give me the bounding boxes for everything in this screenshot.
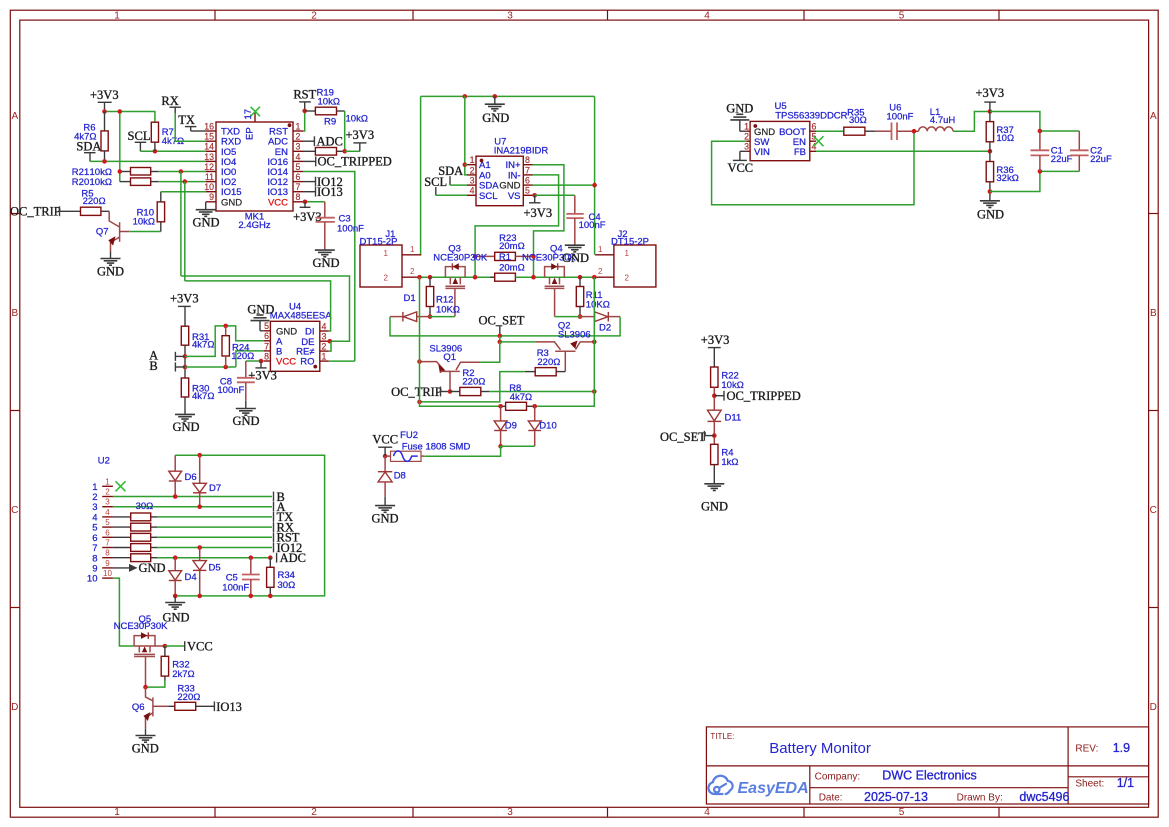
svg-text:R20: R20 (72, 177, 89, 188)
svg-text:7: 7 (525, 165, 530, 175)
svg-text:FU2: FU2 (400, 430, 418, 441)
svg-text:1: 1 (114, 11, 120, 22)
svg-text:GND: GND (132, 741, 159, 755)
svg-text:D: D (11, 702, 18, 713)
svg-text:SCL: SCL (424, 175, 447, 189)
svg-text:RO: RO (300, 357, 314, 368)
svg-text:VCC: VCC (727, 161, 753, 175)
svg-text:INA219BIDR: INA219BIDR (494, 146, 549, 157)
svg-text:EP: EP (245, 127, 256, 140)
svg-text:D7: D7 (209, 483, 221, 494)
svg-text:GND: GND (977, 208, 1004, 222)
svg-text:ADC: ADC (280, 551, 306, 565)
svg-text:OC_TRIPPED: OC_TRIPPED (318, 155, 392, 169)
svg-text:7: 7 (296, 182, 301, 192)
svg-text:Q6: Q6 (132, 702, 145, 713)
svg-text:1/1: 1/1 (1117, 776, 1134, 790)
svg-text:4: 4 (704, 807, 710, 818)
svg-text:Battery Monitor: Battery Monitor (769, 740, 871, 757)
svg-text:R1: R1 (499, 252, 511, 263)
svg-text:10Ω: 10Ω (996, 133, 1014, 144)
svg-text:Company:: Company: (815, 771, 861, 782)
svg-text:6: 6 (105, 528, 110, 537)
svg-text:10KΩ: 10KΩ (586, 300, 610, 311)
svg-text:2: 2 (625, 273, 630, 282)
svg-text:D5: D5 (209, 563, 221, 574)
svg-text:D1: D1 (404, 293, 416, 304)
svg-text:4: 4 (704, 11, 710, 22)
svg-text:R9: R9 (324, 116, 336, 127)
svg-text:3: 3 (507, 11, 513, 22)
svg-text:+3V3: +3V3 (170, 291, 199, 305)
svg-text:GND: GND (172, 420, 199, 434)
svg-text:D8: D8 (394, 471, 406, 482)
svg-text:2.4GHz: 2.4GHz (238, 220, 270, 231)
svg-text:100nF: 100nF (337, 224, 364, 235)
svg-text:OC_SET: OC_SET (479, 313, 525, 327)
svg-text:4k7Ω: 4k7Ω (510, 392, 532, 403)
svg-text:13: 13 (204, 152, 214, 162)
svg-text:3: 3 (744, 142, 749, 152)
svg-text:100nF: 100nF (887, 111, 914, 122)
svg-text:2k7Ω: 2k7Ω (172, 669, 194, 680)
svg-text:1.9: 1.9 (1113, 741, 1130, 755)
svg-text:SL3906: SL3906 (558, 330, 591, 341)
svg-text:GND: GND (726, 102, 753, 116)
svg-text:TX: TX (178, 113, 195, 127)
svg-text:100nF: 100nF (579, 220, 606, 231)
svg-text:OC_TRIP: OC_TRIP (391, 385, 442, 399)
svg-text:22uF: 22uF (1090, 154, 1112, 165)
svg-text:3: 3 (322, 332, 327, 342)
svg-text:32kΩ: 32kΩ (996, 173, 1018, 184)
svg-text:GND: GND (482, 111, 509, 125)
svg-text:D6: D6 (185, 472, 197, 483)
svg-text:C: C (1150, 505, 1157, 516)
svg-text:5: 5 (105, 518, 110, 527)
svg-text:10kΩ: 10kΩ (346, 114, 368, 125)
svg-text:3: 3 (507, 807, 513, 818)
svg-text:1: 1 (744, 122, 749, 132)
svg-text:1: 1 (322, 352, 327, 362)
svg-text:U2: U2 (98, 456, 110, 467)
svg-text:1: 1 (105, 477, 110, 486)
svg-text:B: B (1150, 308, 1157, 319)
svg-text:3: 3 (470, 176, 475, 186)
svg-text:8: 8 (296, 192, 301, 202)
svg-text:+3V3: +3V3 (346, 128, 375, 142)
svg-text:VS: VS (508, 191, 521, 202)
svg-text:2: 2 (470, 165, 475, 175)
svg-text:6: 6 (812, 122, 817, 132)
svg-text:VCC: VCC (268, 197, 288, 208)
svg-text:GND: GND (701, 500, 728, 514)
svg-text:GND: GND (312, 256, 339, 270)
svg-text:4.7uH: 4.7uH (930, 115, 955, 126)
svg-text:8: 8 (105, 549, 110, 558)
svg-text:1: 1 (410, 245, 415, 254)
svg-text:SCL: SCL (128, 129, 151, 143)
svg-text:SCL: SCL (479, 191, 497, 202)
svg-text:+3V3: +3V3 (90, 88, 119, 102)
svg-text:RX: RX (161, 94, 178, 108)
svg-text:D10: D10 (539, 421, 556, 432)
svg-text:16: 16 (204, 121, 214, 131)
svg-text:D: D (1150, 702, 1157, 713)
svg-text:220Ω: 220Ω (83, 196, 106, 207)
svg-text:C: C (11, 505, 18, 516)
svg-text:SDA: SDA (76, 140, 101, 154)
svg-text:Fuse 1808 SMD: Fuse 1808 SMD (402, 442, 471, 453)
svg-text:9: 9 (105, 559, 110, 568)
svg-text:2: 2 (322, 342, 327, 352)
svg-text:10: 10 (87, 574, 98, 585)
svg-text:4: 4 (296, 152, 301, 162)
svg-text:5: 5 (525, 186, 530, 196)
svg-text:IO13: IO13 (216, 700, 242, 714)
svg-text:30Ω: 30Ω (136, 501, 154, 512)
svg-text:10: 10 (204, 182, 214, 192)
svg-text:4: 4 (322, 321, 327, 331)
svg-text:1: 1 (114, 807, 120, 818)
svg-text:1: 1 (296, 121, 301, 131)
svg-text:20mΩ: 20mΩ (499, 263, 525, 274)
svg-text:A: A (11, 111, 18, 122)
svg-text:3: 3 (105, 498, 110, 507)
svg-text:10kΩ: 10kΩ (90, 177, 112, 188)
svg-text:6: 6 (264, 331, 269, 341)
svg-text:2: 2 (410, 267, 415, 276)
svg-text:GND: GND (139, 561, 166, 575)
svg-text:D11: D11 (725, 413, 742, 424)
svg-text:GND: GND (221, 197, 242, 208)
svg-text:NCE30P30K: NCE30P30K (433, 252, 488, 263)
svg-text:Sheet:: Sheet: (1075, 779, 1104, 790)
svg-text:12: 12 (204, 162, 214, 172)
svg-text:20mΩ: 20mΩ (499, 241, 525, 252)
svg-text:DWC Electronics: DWC Electronics (882, 769, 976, 783)
svg-text:22uF: 22uF (1051, 154, 1073, 165)
svg-text:7: 7 (264, 341, 269, 351)
svg-text:GND: GND (232, 414, 259, 428)
svg-text:6: 6 (296, 172, 301, 182)
svg-text:D4: D4 (185, 572, 197, 583)
svg-text:B: B (11, 308, 18, 319)
svg-text:OC_TRIPPED: OC_TRIPPED (727, 389, 801, 403)
svg-text:5: 5 (899, 11, 905, 22)
svg-text:OC_SET: OC_SET (660, 430, 706, 444)
svg-text:4: 4 (105, 508, 110, 517)
svg-text:D2: D2 (599, 323, 611, 334)
svg-text:15: 15 (204, 132, 214, 142)
svg-text:2: 2 (311, 11, 317, 22)
svg-text:GND: GND (371, 512, 398, 526)
svg-text:10KΩ: 10KΩ (436, 304, 460, 315)
svg-text:Q7: Q7 (96, 227, 109, 238)
svg-text:5: 5 (899, 807, 905, 818)
svg-text:VCC: VCC (372, 433, 398, 447)
svg-text:GND: GND (97, 264, 124, 278)
svg-text:+3V3: +3V3 (524, 206, 553, 220)
svg-text:9: 9 (209, 192, 214, 202)
svg-text:7: 7 (105, 539, 110, 548)
svg-text:Drawn By:: Drawn By: (957, 793, 1003, 804)
svg-text:MAX485EESA: MAX485EESA (270, 310, 332, 321)
svg-text:6: 6 (525, 176, 530, 186)
svg-text:5: 5 (264, 321, 269, 331)
svg-text:1: 1 (625, 249, 630, 258)
svg-text:OC_TRIP: OC_TRIP (10, 204, 61, 218)
svg-text:ADC: ADC (317, 134, 343, 148)
svg-text:Q1: Q1 (443, 352, 456, 363)
svg-text:+3V3: +3V3 (701, 333, 730, 347)
svg-text:8: 8 (264, 351, 269, 361)
svg-text:GND: GND (192, 216, 219, 230)
svg-text:3: 3 (296, 142, 301, 152)
svg-text:dwc5496: dwc5496 (1019, 790, 1069, 804)
svg-text:VIN: VIN (754, 147, 770, 158)
svg-text:4: 4 (470, 186, 475, 196)
svg-text:10kΩ: 10kΩ (133, 217, 155, 228)
svg-text:TPS56339DDCR: TPS56339DDCR (775, 111, 847, 122)
svg-text:D9: D9 (505, 421, 517, 432)
svg-text:11: 11 (205, 172, 214, 182)
svg-text:NCE30P30K: NCE30P30K (114, 621, 169, 632)
svg-text:1: 1 (598, 245, 603, 254)
svg-text:5: 5 (296, 162, 301, 172)
svg-text:+3V3: +3V3 (976, 86, 1005, 100)
svg-text:VCC: VCC (187, 640, 213, 654)
svg-text:A: A (1150, 111, 1157, 122)
svg-text:EasyEDA: EasyEDA (738, 780, 809, 797)
svg-text:DT15-2P: DT15-2P (611, 236, 649, 247)
svg-text:220Ω: 220Ω (177, 692, 200, 703)
svg-text:GND: GND (562, 251, 589, 265)
svg-text:2025-07-13: 2025-07-13 (864, 790, 928, 804)
svg-text:2: 2 (105, 488, 110, 497)
svg-text:30Ω: 30Ω (278, 580, 296, 591)
svg-text:FB: FB (794, 147, 806, 158)
svg-text:B: B (149, 359, 157, 373)
svg-text:DT15-2P: DT15-2P (360, 236, 398, 247)
svg-text:2: 2 (384, 273, 389, 282)
svg-text:4k7Ω: 4k7Ω (192, 391, 214, 402)
svg-text:+3V3: +3V3 (248, 369, 277, 383)
svg-text:1: 1 (384, 249, 389, 258)
svg-text:10kΩ: 10kΩ (318, 97, 340, 108)
svg-text:100nF: 100nF (217, 385, 244, 396)
svg-text:30Ω: 30Ω (849, 115, 867, 126)
svg-text:1kΩ: 1kΩ (721, 457, 738, 468)
svg-text:2: 2 (598, 267, 603, 276)
svg-text:100nF: 100nF (222, 583, 249, 594)
svg-text:Date:: Date: (819, 793, 843, 804)
svg-text:220Ω: 220Ω (462, 377, 485, 388)
svg-text:220Ω: 220Ω (537, 357, 560, 368)
svg-text:2: 2 (744, 132, 749, 142)
svg-text:REV:: REV: (1075, 743, 1098, 754)
svg-text:2: 2 (311, 807, 317, 818)
svg-text:2: 2 (296, 132, 301, 142)
svg-text:VCC: VCC (276, 357, 296, 368)
svg-text:10: 10 (103, 569, 112, 578)
svg-text:TITLE:: TITLE: (710, 732, 734, 741)
svg-text:4k7Ω: 4k7Ω (192, 339, 214, 350)
svg-text:1: 1 (470, 155, 475, 165)
svg-text:14: 14 (204, 142, 214, 152)
svg-text:IO13: IO13 (317, 185, 343, 199)
svg-text:RST: RST (293, 88, 316, 102)
